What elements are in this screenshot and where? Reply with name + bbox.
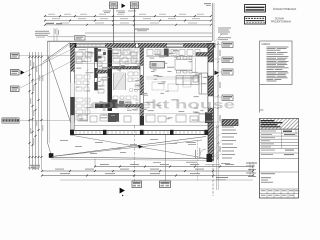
svg-text:eprojekt house: eprojekt house (90, 100, 235, 112)
top dimension line 2 (45, 20, 211, 22)
legend label 2 (271, 18, 291, 24)
left vertical dimension chain 4 (38, 52, 40, 170)
building left wall (71, 44, 75, 130)
interior dimension chain vertical (87, 48, 89, 122)
panel margin line continuation (259, 85, 261, 113)
left marker triangle (21, 70, 25, 74)
bottom marker box 1 (132, 181, 142, 188)
south row dark blocks (108, 112, 212, 125)
interior wall vertical C (140, 48, 144, 125)
grid line right vertical (204, 3, 214, 41)
tiny text above title block (260, 110, 264, 111)
south window band (70, 130, 208, 135)
section marker box A top left (110, 2, 118, 9)
small label box upper left of plan (75, 36, 86, 41)
section line B continuation (134, 125, 136, 181)
corner door arc (200, 149, 206, 155)
svg-text:ŚCIANA ISTNIEJĄCA: ŚCIANA ISTNIEJĄCA (273, 8, 297, 11)
bottom dimension line 2 (41, 170, 254, 172)
below corner text (153, 162, 197, 163)
kitchen counter row (146, 50, 207, 57)
left label box 3 (11, 86, 20, 92)
top dimension line 1 labels (48, 13, 204, 16)
floor edge line above window band (74, 125, 208, 127)
left leader 4 (20, 120, 70, 122)
svg-text:UWAGI:: UWAGI: (262, 43, 271, 46)
south row baseline (74, 113, 208, 115)
terrace text smudges (60, 139, 177, 154)
north arrow triangle (122, 4, 126, 9)
right boundary verticals (217, 125, 219, 190)
corner wedge diagonal 1 (43, 43, 70, 63)
bathroom fixtures (113, 49, 139, 104)
terrace diagonal shallow (70, 135, 207, 159)
right hatched label (222, 120, 238, 128)
left vertical dimension chain 3 (35, 52, 37, 170)
top wall risers (54, 28, 57, 41)
section line A vertical (113, 9, 115, 45)
stair core wall (108, 48, 113, 111)
corner text (186, 142, 196, 145)
right lower annotation rows (222, 130, 237, 159)
wc fixtures left of core (97, 62, 104, 93)
notes paragraphs (267, 47, 289, 82)
top dimension line 2 labels (52, 17, 200, 20)
interior text smudges (76, 49, 213, 122)
svg-text:PROJEKTOWANA: PROJEKTOWANA (271, 21, 291, 24)
living room sparse marks (146, 79, 196, 91)
right annotation text 2 (218, 37, 231, 40)
terrace diagonal long (52, 137, 206, 157)
plot dashed line right (212, 160, 214, 196)
title block rows (260, 130, 299, 159)
left closet row (76, 52, 91, 120)
wall horizontal low 2 (113, 105, 143, 108)
left vertical dimension chain 1 (29, 52, 31, 170)
terrace corner post (49, 153, 54, 158)
interior wall vertical A (95, 48, 98, 90)
left chain bottom text (31, 167, 40, 170)
building left overhang line (48, 41, 51, 155)
dim text bold left ends (46, 23, 62, 24)
bottom right end labels (246, 163, 257, 178)
left leader 3 (19, 62, 70, 89)
setback line horizontal (85, 32, 212, 34)
left leader 1 (19, 55, 70, 57)
title block frame (260, 119, 299, 199)
terrace right corner block (207, 154, 213, 162)
right dim chain vertical (217, 41, 219, 160)
bottom marker box 2 (160, 181, 171, 188)
terrace diagonal mid (52, 140, 202, 157)
right wall window glazing (210, 62, 212, 108)
overhang line horizontal (48, 36, 213, 38)
legend bar 2 walls demolished (245, 17, 266, 25)
corner wedge diagonal 2 (40, 44, 70, 66)
stairs treads (114, 73, 126, 90)
left room long diagonal (48, 56, 71, 122)
title block column divider (282, 130, 297, 149)
right label box 1 (222, 42, 233, 48)
dim riser x95 (94, 159, 96, 168)
south furniture row (78, 114, 206, 122)
utility dark block (111, 100, 125, 109)
section line B vertical (134, 9, 136, 45)
building top wall (48, 41, 216, 47)
dashed line mid (197, 140, 199, 181)
top right annotation text (218, 28, 231, 35)
top dimension line 3 (45, 24, 211, 26)
bottom dim labels (55, 164, 234, 174)
terrace arrow mark (138, 145, 143, 149)
bathroom wall horizontal (96, 70, 108, 73)
right label box 3 (222, 69, 233, 75)
setback line labels above wall (135, 29, 149, 32)
riser labels (55, 29, 59, 35)
sectional sofa (176, 76, 199, 85)
mouse cursor (120, 188, 125, 197)
left leader 2 (25, 50, 71, 73)
left label box 2 (11, 70, 20, 76)
bottom left dim text (28, 165, 40, 169)
left vertical dimension chain 2 (32, 52, 34, 170)
legend bar 1 walls existing (245, 5, 266, 13)
dining wall stub (195, 58, 197, 72)
plot dashed text (216, 177, 228, 180)
tall cabinet kitchen (164, 49, 169, 57)
sofa along right wall (193, 73, 208, 94)
dashed mid text (195, 148, 200, 159)
top right annotation leader (214, 34, 223, 43)
right leader lines (214, 45, 223, 123)
interior dimension chain horizontal (75, 64, 207, 78)
dining table (175, 57, 192, 74)
hall dark marks (97, 49, 138, 69)
section marker box B top (131, 2, 139, 9)
top dimension line 3 labels (60, 22, 197, 25)
dense text cluster above dim lines (103, 11, 136, 13)
right label box 2 (222, 57, 233, 63)
left annotation text block (35, 31, 50, 38)
bottom dim end risers (250, 162, 253, 177)
right label box 4 (222, 95, 233, 101)
hall wall horizontal low (95, 104, 112, 109)
bottom dimension line 1 (94, 166, 254, 168)
right lower leaders (211, 125, 222, 158)
left vertical dimension chain 5 (41, 52, 43, 170)
terrace bottom edge (51, 157, 211, 160)
title block main cell lines (260, 172, 299, 194)
top dimension line 1 (45, 15, 211, 17)
title block lower labels (261, 173, 275, 183)
bottom dimension line 3 (41, 175, 254, 177)
title block bottom table (267, 189, 294, 198)
right dim labels (220, 50, 221, 152)
left dim labels vertical (30, 60, 43, 144)
notes box frame (260, 41, 293, 85)
building right wall (208, 44, 214, 161)
corridor wall line (119, 60, 121, 72)
corner mini dim (205, 163, 230, 165)
bathroom wall horizontal 2 (110, 67, 140, 70)
right marker triangle (215, 71, 220, 76)
entry hall fixtures (75, 50, 137, 63)
title block hatched header (260, 119, 299, 130)
kitchen wall stub right (196, 53, 213, 57)
left label box 1 (11, 53, 20, 59)
kitchen island (150, 62, 165, 69)
bottom boundary line (60, 179, 253, 181)
left wall-sample bar (2, 118, 20, 124)
terrace vertical divider (165, 135, 167, 182)
